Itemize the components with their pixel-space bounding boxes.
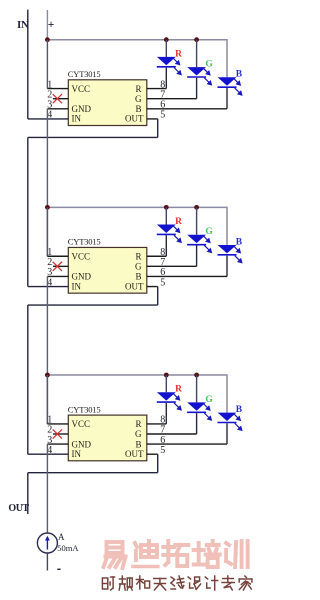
wire anode drop LED green U3 xyxy=(196,375,198,402)
no-connect X on pin 2 U2 xyxy=(53,262,62,271)
svg-text:IN: IN xyxy=(72,281,82,291)
pin 2 U3 (no connect) xyxy=(53,433,68,435)
wire anode drop LED blue U2 xyxy=(226,207,228,245)
svg-text:GND: GND xyxy=(72,104,92,114)
watermark glyph 易 xyxy=(104,542,126,568)
pin 5 U1 (OUT stub) xyxy=(147,118,158,120)
LED blue U2 xyxy=(218,245,237,255)
svg-text:VCC: VCC xyxy=(72,419,91,429)
pin 7 U2 xyxy=(147,265,197,267)
wire OUT bus to U3 xyxy=(27,305,29,454)
svg-text:CYT3015: CYT3015 xyxy=(68,69,101,79)
watermark subtitle glyph 专 xyxy=(222,576,234,590)
pin 5 U2 (OUT stub) xyxy=(147,286,158,288)
watermark subtitle glyph 频 xyxy=(119,576,132,590)
svg-text:IN: IN xyxy=(72,114,82,124)
wire OUT return U3 xyxy=(28,472,158,474)
wire OUT return U2 xyxy=(28,304,158,306)
wire cathode LED green U1 xyxy=(196,78,198,99)
watermark subtitle glyph 计 xyxy=(205,576,218,590)
wire cathode LED red U3 xyxy=(165,403,167,424)
svg-text:R: R xyxy=(135,251,141,261)
wire OUT drop U2 xyxy=(157,287,159,306)
pin 6 U1 xyxy=(147,108,227,110)
power - terminal xyxy=(57,568,60,570)
svg-text:OUT: OUT xyxy=(125,114,144,124)
wire anode drop LED blue U3 xyxy=(226,374,228,412)
svg-text:G: G xyxy=(135,94,142,104)
svg-text:B: B xyxy=(236,237,243,247)
wire anode rail U1 xyxy=(47,39,227,41)
LED emission arrows blue U2 xyxy=(233,246,242,263)
svg-text:R: R xyxy=(175,217,182,227)
wire VCC feed vertical top xyxy=(46,10,48,40)
LED emission arrows green U2 xyxy=(203,235,212,252)
svg-text:G: G xyxy=(205,60,213,70)
svg-text:5: 5 xyxy=(160,277,165,288)
svg-text:5: 5 xyxy=(160,110,165,121)
wire anode drop LED red U1 xyxy=(165,40,167,57)
pin 2 U1 (no connect) xyxy=(53,98,68,100)
pin 1 U3 xyxy=(47,423,68,425)
svg-text:OUT: OUT xyxy=(8,503,29,514)
wire VCC drop to pin 1 U1 xyxy=(46,40,48,89)
pin 3 U1 xyxy=(47,108,68,110)
watermark subtitle glyph 线 xyxy=(171,576,184,589)
pin 6 U2 xyxy=(147,275,227,277)
LED emission arrows blue U3 xyxy=(233,413,242,430)
junction node LED green anode U1 xyxy=(194,37,199,42)
svg-text:CYT3015: CYT3015 xyxy=(68,237,101,247)
svg-text:B: B xyxy=(135,104,141,114)
wire OUT return U1 xyxy=(28,136,158,138)
watermark subtitle glyph 家 xyxy=(239,576,252,590)
pin 3 U2 xyxy=(47,275,68,277)
IC U3 CYT3015 body xyxy=(68,415,147,461)
pin 2 U2 (no connect) xyxy=(53,265,68,267)
wire anode drop LED green U2 xyxy=(196,207,198,234)
svg-text:A: A xyxy=(58,532,65,542)
pin 7 U1 xyxy=(147,98,197,100)
LED emission arrows green U3 xyxy=(203,403,212,420)
svg-text:R: R xyxy=(135,84,141,94)
watermark glyph 拓 xyxy=(163,541,188,566)
svg-text:B: B xyxy=(236,70,243,80)
junction node LED red anode U3 xyxy=(164,373,169,378)
wire cathode LED blue U2 xyxy=(226,256,228,277)
wire OUT bus to U2 xyxy=(27,137,29,286)
LED emission arrows red U3 xyxy=(173,393,182,410)
no-connect X on pin 2 U1 xyxy=(53,94,62,103)
pin 4 U3 / IN wire xyxy=(28,453,69,455)
svg-text:OUT: OUT xyxy=(125,449,144,459)
watermark subtitle glyph 和 xyxy=(136,576,149,589)
svg-text:OUT: OUT xyxy=(125,281,144,291)
junction node LED green anode U2 xyxy=(194,205,199,210)
wire GND chain U2 to U3 xyxy=(46,276,48,423)
junction node VCC U1 xyxy=(45,37,50,42)
wire VCC drop to pin 1 U3 xyxy=(46,375,48,424)
LED green U1 xyxy=(187,67,206,77)
pin 8 U1 xyxy=(147,88,167,90)
wire OUT drop U1 xyxy=(157,119,159,137)
wire IN bus vertical xyxy=(27,10,29,119)
svg-text:G: G xyxy=(205,395,213,405)
watermark subtitle glyph 射 xyxy=(102,577,114,590)
svg-text:G: G xyxy=(205,227,213,237)
svg-text:CYT3015: CYT3015 xyxy=(68,404,101,414)
LED red U3 xyxy=(157,392,176,402)
wire OUT drop U3 xyxy=(157,454,159,473)
wire anode rail U2 xyxy=(47,206,227,208)
svg-text:VCC: VCC xyxy=(72,251,91,261)
pin 4 U1 / IN wire xyxy=(28,118,69,120)
pin 8 U2 xyxy=(147,255,167,257)
wire OUT bus bottom xyxy=(27,473,29,514)
junction node LED green anode U3 xyxy=(194,373,199,378)
svg-text:R: R xyxy=(175,385,182,395)
LED emission arrows red U1 xyxy=(173,58,182,75)
wire anode drop LED blue U1 xyxy=(226,39,228,77)
LED red U1 xyxy=(157,57,176,67)
IC U1 CYT3015 body xyxy=(68,80,147,126)
svg-text:G: G xyxy=(135,262,142,272)
wire anode rail U3 xyxy=(47,374,227,376)
watermark glyph 迪 xyxy=(133,541,158,567)
wire cathode LED red U1 xyxy=(165,68,167,89)
current source I1 50mA xyxy=(37,533,57,553)
svg-text:IN: IN xyxy=(72,449,82,459)
junction node LED red anode U1 xyxy=(164,37,169,42)
wire VCC drop to pin 1 U2 xyxy=(46,207,48,256)
junction node VCC U3 xyxy=(45,373,50,378)
svg-text:50mA: 50mA xyxy=(57,543,79,553)
wire GND chain U1 to U2 xyxy=(46,109,48,256)
svg-text:B: B xyxy=(135,272,141,282)
wire cathode LED green U3 xyxy=(196,413,198,434)
pin 6 U3 xyxy=(147,443,227,445)
svg-text:B: B xyxy=(135,439,141,449)
pin 7 U3 xyxy=(147,433,197,435)
svg-text:VCC: VCC xyxy=(72,84,91,94)
svg-text:G: G xyxy=(135,429,142,439)
wire cathode LED blue U1 xyxy=(226,88,228,109)
svg-text:R: R xyxy=(135,419,141,429)
svg-text:5: 5 xyxy=(160,445,165,456)
svg-text:B: B xyxy=(236,405,243,415)
LED green U3 xyxy=(187,402,206,412)
LED emission arrows green U1 xyxy=(203,68,212,85)
wire current source to minus xyxy=(46,553,48,571)
wire cathode LED red U2 xyxy=(165,235,167,256)
pin 4 U2 / IN wire xyxy=(28,286,69,288)
wire anode drop LED red U2 xyxy=(165,207,167,224)
pin 5 U3 (OUT stub) xyxy=(147,453,158,455)
LED blue U3 xyxy=(218,413,237,423)
svg-text:GND: GND xyxy=(72,439,92,449)
watermark subtitle glyph 天 xyxy=(154,579,166,591)
LED green U2 xyxy=(187,235,206,245)
wire anode drop LED red U3 xyxy=(165,375,167,392)
wire cathode LED blue U3 xyxy=(226,423,228,444)
LED emission arrows red U2 xyxy=(173,225,182,242)
pin 1 U1 xyxy=(47,88,68,90)
no-connect X on pin 2 U3 xyxy=(53,429,62,438)
pin 8 U3 xyxy=(147,423,167,425)
svg-text:+: + xyxy=(48,19,55,31)
junction node LED red anode U2 xyxy=(164,205,169,210)
wire GND chain U3 to current source xyxy=(46,444,48,533)
LED blue U1 xyxy=(218,77,237,87)
pin 3 U3 xyxy=(47,443,68,445)
pin 1 U2 xyxy=(47,255,68,257)
wire cathode LED green U2 xyxy=(196,245,198,266)
svg-text:GND: GND xyxy=(72,272,92,282)
junction node VCC U2 xyxy=(45,205,50,210)
watermark glyph 培 xyxy=(194,541,220,567)
wire anode drop LED green U1 xyxy=(196,40,198,67)
svg-text:R: R xyxy=(175,49,182,59)
watermark glyph 训 xyxy=(226,541,248,567)
watermark subtitle glyph 设 xyxy=(188,577,201,590)
LED emission arrows blue U1 xyxy=(233,78,242,95)
LED red U2 xyxy=(157,225,176,235)
IC U2 CYT3015 body xyxy=(68,247,147,293)
